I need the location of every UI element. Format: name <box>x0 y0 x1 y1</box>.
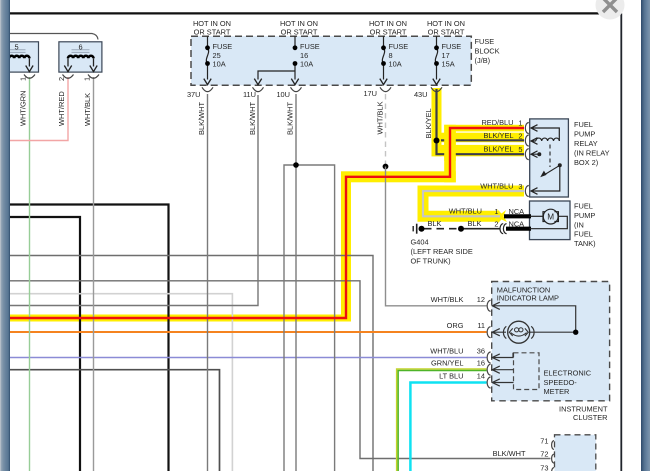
svg-text:RED/BLU: RED/BLU <box>481 118 513 127</box>
svg-text:OR START: OR START <box>281 27 318 36</box>
motor right bracket <box>554 212 558 222</box>
fuse block (J/B) dashed box <box>191 36 471 85</box>
svg-text:WHT/BLK: WHT/BLK <box>83 93 92 126</box>
bottom box pin arcs 71 72 73 <box>552 440 554 449</box>
svg-text:10A: 10A <box>213 60 226 69</box>
motor left bracket <box>543 212 547 222</box>
svg-text:WHT/BLK: WHT/BLK <box>375 101 384 134</box>
svg-text:INDICATOR LAMP: INDICATOR LAMP <box>497 293 559 302</box>
bracket line over connectors 5 and 6 <box>2 34 98 40</box>
wire: WHT/BLK solid segment down then right to cluster pin 12 <box>386 167 487 306</box>
svg-text:(J/B): (J/B) <box>475 56 491 65</box>
svg-text:BOX 2): BOX 2) <box>574 158 598 167</box>
svg-text:FUSE: FUSE <box>475 37 495 46</box>
RED/BLU red wire core over highlight <box>2 128 524 318</box>
svg-text:OR START: OR START <box>428 27 465 36</box>
svg-text:FUSE: FUSE <box>300 42 320 51</box>
yellow highlight: RED/BLU pin1 short band <box>444 125 524 132</box>
svg-text:(IN: (IN <box>574 221 584 230</box>
svg-text:2: 2 <box>494 220 498 229</box>
svg-text:OF TRUNK): OF TRUNK) <box>411 257 451 266</box>
ground G404 symbol <box>419 226 425 232</box>
instrument cluster dashed box <box>492 282 610 401</box>
yellow highlight: RED/BLU vertical x=346 <box>341 173 351 322</box>
fuel pump pin2 NCA thick black wire <box>506 227 531 231</box>
svg-text:(LEFT REAR SIDE: (LEFT REAR SIDE <box>411 247 473 256</box>
yellow highlight: RED/BLU vertical x=450 <box>444 125 456 183</box>
svg-text:3: 3 <box>518 182 522 191</box>
yellow band of red vertical crossing BLK/YEL wires <box>444 132 456 162</box>
fuel pump relay box <box>530 119 569 197</box>
wire: LT BLU from bottom edge up, right to cluster pin 14 <box>410 383 486 471</box>
wire: lavender WHT/BLU horizontal y=356.4 to cluster pin 36 <box>2 357 487 359</box>
wire: 10U branch horizontal y=165 with corners down at x=284 and x=334.6 <box>284 165 335 471</box>
svg-text:BLK: BLK <box>428 219 442 228</box>
svg-text:10A: 10A <box>389 60 402 69</box>
junction dot on 10U at branch <box>293 162 299 168</box>
relay internal: pin2 arrow into coil <box>531 138 538 145</box>
wire: gray horizontal y=255.5 to corner, down at x=373 <box>2 256 373 471</box>
svg-text:43U: 43U <box>414 90 428 99</box>
svg-text:16: 16 <box>477 359 485 368</box>
svg-text:WHT/BLK: WHT/BLK <box>431 295 464 304</box>
svg-text:WHT/GRN: WHT/GRN <box>19 90 28 126</box>
fuse F16 element with branch to 11U <box>258 36 295 79</box>
connector box 5 (cut by scrollbar) <box>0 42 39 72</box>
svg-text:71: 71 <box>540 437 548 446</box>
svg-text:BLK/YEL: BLK/YEL <box>484 145 514 154</box>
svg-text:METER: METER <box>544 387 570 396</box>
left scrollbar <box>0 0 10 471</box>
svg-text:2: 2 <box>57 77 66 81</box>
fuse F25 element <box>206 36 208 79</box>
svg-text:BLK/WHT: BLK/WHT <box>197 101 206 135</box>
svg-text:1: 1 <box>83 77 92 81</box>
svg-text:ORG: ORG <box>447 321 464 330</box>
cluster pin12 wire with arrow, right and down to lamp junction <box>492 302 576 332</box>
svg-text:WHT/BLU: WHT/BLU <box>449 207 482 216</box>
svg-text:BLK/YEL: BLK/YEL <box>484 131 514 140</box>
fuel pump box <box>530 201 571 240</box>
cluster pin11 arrow and wire into lamp <box>492 329 506 336</box>
svg-text:2: 2 <box>518 131 522 140</box>
wire: BLK/WHT 10U vertical x=296 <box>295 94 297 471</box>
wire: gray horizontal y=280.8 -> corner x=360 -> down -> BLK/WHT to pin72 <box>2 281 551 459</box>
yellow highlight: RED/BLU long horizontal y=318 <box>2 315 350 322</box>
svg-text:BLOCK: BLOCK <box>475 47 500 56</box>
relay internal: coil <box>536 138 560 141</box>
connector 6 internals: coil and two pin arrows <box>68 56 93 59</box>
dialog right border <box>620 13 622 471</box>
svg-text:G404: G404 <box>411 238 429 247</box>
svg-text:12: 12 <box>477 295 485 304</box>
pin2 double connector arcs <box>500 224 503 234</box>
svg-text:WHT/BLU: WHT/BLU <box>480 181 513 190</box>
malfunction indicator lamp symbol <box>508 321 530 343</box>
cluster pin14 arrow and wire to speedometer <box>492 379 513 386</box>
svg-text:WHT/RED: WHT/RED <box>57 91 66 126</box>
svg-text:GRN/YEL: GRN/YEL <box>431 359 463 368</box>
right scrollbar <box>641 0 650 471</box>
cluster pin16 arrow and wire to speedometer <box>492 366 513 373</box>
wire: WHT/GRN green vertical x=29.5 <box>29 77 31 471</box>
svg-text:SPEEDO-: SPEEDO- <box>544 378 578 387</box>
svg-text:1: 1 <box>494 207 498 216</box>
svg-text:WHT/BLU: WHT/BLU <box>430 346 463 355</box>
svg-text:10A: 10A <box>300 60 313 69</box>
relay internal: switch blade with arrowhead <box>543 165 560 175</box>
svg-text:BLK: BLK <box>468 219 482 228</box>
svg-text:TANK): TANK) <box>574 239 596 248</box>
svg-text:(IN RELAY: (IN RELAY <box>574 149 610 158</box>
yellow highlight: BLK/YEL vertical band from fuse 17 <box>432 88 442 156</box>
connector 5 internals: coil and pin arrow <box>4 56 29 59</box>
wire: WHT/RED pink from box6 pin2 down then left <box>2 77 68 141</box>
wire: WHT/BLK 17U dashed light segment from fuse to splice dot <box>385 94 387 167</box>
fuse F17 element <box>435 36 437 79</box>
svg-text:OR START: OR START <box>370 27 407 36</box>
relay internal: pin1 arrow and bracket to coil right end <box>531 125 559 141</box>
svg-text:NCA: NCA <box>509 207 525 216</box>
wire: light gray (WHT) horizontal y=293.7 to corner, down at x=232.4 <box>2 294 232 471</box>
connector 5 label 5 underline <box>8 50 26 53</box>
svg-text:OR START: OR START <box>194 27 231 36</box>
svg-text:CLUSTER: CLUSTER <box>573 413 608 422</box>
motor circle with M <box>543 209 558 224</box>
svg-text:1: 1 <box>518 118 522 127</box>
svg-text:37U: 37U <box>187 90 201 99</box>
svg-text:73: 73 <box>540 463 548 471</box>
svg-text:72: 72 <box>540 449 548 458</box>
pump internal: loop from motor right to pin2 <box>530 216 568 228</box>
relay internal: dashed actuator link <box>549 145 551 168</box>
wire: WHT/BLK gray vertical x=93.5 from box6 pin1 <box>93 77 95 471</box>
BLK wire dashed from G404 with junction dot <box>424 228 462 230</box>
connector arcs below fuse block outputs <box>202 87 213 91</box>
svg-text:6: 6 <box>78 43 82 52</box>
yellow burst at NCA break, fuel pump pin1 <box>497 209 507 224</box>
relay pin connector arcs at box edge <box>525 123 528 134</box>
svg-text:LT BLU: LT BLU <box>439 372 463 381</box>
svg-text:FUSE: FUSE <box>389 42 409 51</box>
svg-text:RELAY: RELAY <box>574 139 598 148</box>
pump internal: wire from pin1 to motor <box>530 215 544 217</box>
svg-text:36: 36 <box>477 346 485 355</box>
svg-text:ELECTRONIC: ELECTRONIC <box>544 369 592 378</box>
svg-text:15A: 15A <box>442 60 455 69</box>
wire: GRN/YEL (green with yellow tracer) from bottom edge up, right to cluster pin 16 <box>397 369 487 471</box>
svg-text:NCA: NCA <box>509 220 525 229</box>
wire: dark gray horizontal y=368.5 to corner, down at x=219.5 <box>2 370 220 471</box>
svg-text:FUSE: FUSE <box>442 42 462 51</box>
fuse F8 element <box>382 36 384 79</box>
svg-text:M: M <box>547 213 554 222</box>
svg-text:BLK/WHT: BLK/WHT <box>493 449 526 458</box>
cluster pin36 arrow and wire to speedometer <box>492 353 513 361</box>
wire: black horizontal y=217 to corner, down at x=80 <box>8 217 80 471</box>
svg-text:FUSE: FUSE <box>213 42 233 51</box>
WHT/BLU silver wire core over highlight <box>423 191 524 216</box>
wire: orange ORG horizontal y=333.5 to cluster pin 11 <box>2 331 487 333</box>
bottom connector dashed box (pins 71-73) <box>555 435 596 471</box>
wire: black horizontal y=204.5 to corner, down at x=168.5 <box>2 205 169 471</box>
svg-text:14: 14 <box>477 372 485 381</box>
svg-text:PUMP: PUMP <box>574 211 595 220</box>
splice dot on 17U wire <box>383 164 389 170</box>
svg-text:10U: 10U <box>276 90 290 99</box>
svg-text:11U: 11U <box>243 90 256 99</box>
wire: BLK/WHT 37U vertical x=207.5 <box>207 94 209 471</box>
svg-text:FUEL: FUEL <box>574 202 593 211</box>
electronic speedometer dashed box <box>514 353 540 390</box>
connector box 6 <box>59 42 102 72</box>
svg-text:FUEL: FUEL <box>574 120 593 129</box>
yellow highlight: BLK/YEL pin5 band (covers label) <box>432 145 525 156</box>
svg-text:BLK/WHT: BLK/WHT <box>286 101 295 135</box>
lamp to junction wire <box>530 331 576 333</box>
yellow highlight: RED/BLU horizontal y=176.8 <box>341 171 456 182</box>
svg-text:PUMP: PUMP <box>574 130 595 139</box>
yellow highlight: BLK/YEL pin2 band (covers label) <box>432 133 525 143</box>
connector 6 label 6 underline <box>72 50 90 53</box>
relay internal: pin5 arrow and contact stub <box>531 151 538 158</box>
svg-text:17U: 17U <box>363 89 377 98</box>
cluster pin connector arcs <box>487 300 490 311</box>
svg-text:5: 5 <box>14 43 18 52</box>
BLK/YEL dark wire cores over highlight <box>437 89 525 154</box>
close button <box>596 0 625 20</box>
svg-text:1: 1 <box>19 77 28 81</box>
svg-text:11: 11 <box>477 321 485 330</box>
svg-text:5: 5 <box>518 145 522 154</box>
fuel pump pin1 NCA thick black wire <box>504 214 531 218</box>
relay internal: pin3 arrow and wire up to switch <box>531 165 560 194</box>
svg-text:BLK/WHT: BLK/WHT <box>248 101 257 135</box>
dialog top border <box>9 12 622 14</box>
svg-text:BLK/YEL: BLK/YEL <box>424 108 433 138</box>
svg-text:FUEL: FUEL <box>574 230 593 239</box>
yellow highlight: WHT/BLU relay pin3 -> fuel pump path <box>423 191 524 216</box>
wire: gray horizontal y=305.5 joining 11U vertical going up <box>2 95 258 306</box>
BLK/YEL junction dot <box>434 138 440 144</box>
